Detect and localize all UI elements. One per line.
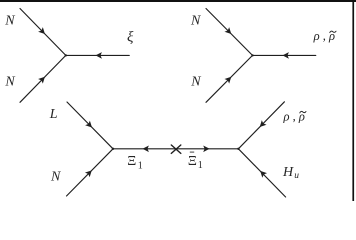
svg-text:N: N <box>190 14 201 29</box>
svg-text:1: 1 <box>138 161 143 172</box>
svg-text:H: H <box>282 165 294 180</box>
arrow on upper N wire (top-right) <box>224 27 233 36</box>
frame top border <box>0 0 356 2</box>
label Xi_1 (left of propagator) <box>127 154 143 171</box>
wire N lower incoming (top-right diagram) <box>206 55 253 102</box>
svg-text:Ξ: Ξ <box>188 154 197 169</box>
svg-text:Ξ: Ξ <box>127 154 136 169</box>
arrow on xi wire (top-left, points left) <box>96 52 102 59</box>
vertex (top-right diagram) <box>251 54 253 56</box>
wire Xi1 propagator (bottom diagram) <box>113 148 238 150</box>
arrow on Xi1bar propagator right segment (points right) <box>203 146 209 153</box>
wire xi (top-left diagram horizontal) <box>66 54 130 56</box>
wire Hu outgoing (bottom diagram lower right) <box>238 149 285 197</box>
wire rho (top-right diagram horizontal) <box>253 54 316 56</box>
arrow on upper N wire (top-left) <box>38 27 47 36</box>
svg-text:N: N <box>190 74 201 89</box>
vertex right (bottom diagram) <box>237 148 239 150</box>
svg-text:u: u <box>294 171 299 181</box>
vertex left (bottom diagram) <box>112 148 114 150</box>
arrow on N wire (bottom) <box>85 168 94 177</box>
wire L incoming (bottom diagram) <box>67 102 113 149</box>
frame right border <box>352 0 354 201</box>
mass-insertion cross X on propagator <box>171 145 181 153</box>
label rho , rho-tilde (bottom right) <box>283 109 307 123</box>
label Xi-bar_1 (right of propagator) <box>188 152 203 171</box>
arrow on lower N wire (top-right) <box>224 74 233 83</box>
arrow on rho wire (bottom upper right, points toward vertex) <box>257 120 266 129</box>
label H_u <box>282 165 299 181</box>
svg-text:N: N <box>50 169 61 184</box>
wire N upper incoming (top-left diagram) <box>20 9 66 56</box>
vertex (top-left diagram) <box>65 54 67 56</box>
svg-text:1: 1 <box>198 160 203 171</box>
wire N lower incoming (top-left diagram) <box>20 55 66 102</box>
arrow on lower N wire (top-left) <box>38 74 47 83</box>
svg-text:N: N <box>4 14 15 29</box>
wire N incoming (bottom diagram) <box>67 149 114 196</box>
wire rho outgoing (bottom diagram upper right) <box>238 102 284 149</box>
wire N upper incoming (top-right diagram) <box>206 9 253 56</box>
svg-text:N: N <box>4 74 15 89</box>
svg-text:ξ: ξ <box>127 30 134 46</box>
svg-text:L: L <box>49 107 58 122</box>
arrow on L wire (bottom) <box>85 121 94 130</box>
arrow on rho wire (top-right, points left) <box>283 52 289 59</box>
arrow on Xi1 propagator left segment (points left) <box>143 146 149 153</box>
label rho , rho-tilde (top-right) <box>313 29 336 43</box>
arrow on Hu wire (bottom lower right, points toward vertex) <box>258 169 267 178</box>
